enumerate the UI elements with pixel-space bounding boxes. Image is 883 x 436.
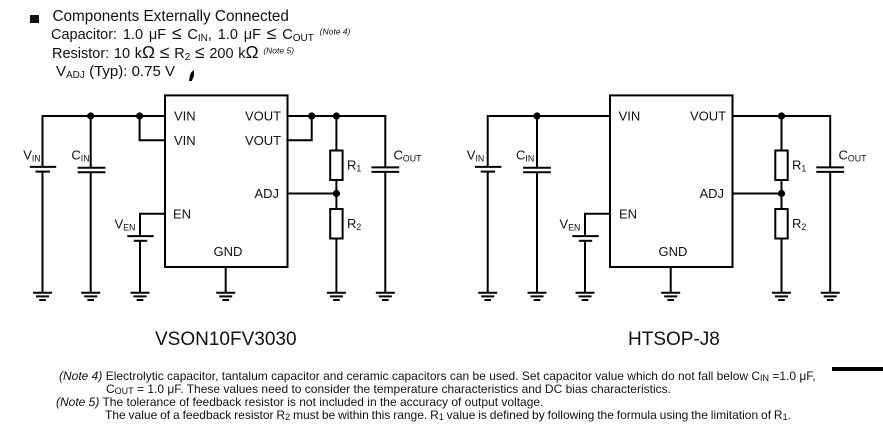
header line 2 xyxy=(51,28,350,43)
wire: CIN drop right xyxy=(536,116,538,167)
svg-text:VIN: VIN xyxy=(174,133,196,148)
node: CIN junction right xyxy=(533,112,540,119)
capacitor COUT xyxy=(371,167,399,172)
battery VEN right xyxy=(572,236,598,241)
note 4 line 1 xyxy=(59,370,816,382)
wire: COUT drop xyxy=(384,115,386,167)
ground: VIN source right xyxy=(478,293,497,300)
svg-text:R1: R1 xyxy=(347,157,361,173)
ground: VEN right xyxy=(576,293,595,300)
ground: COUT xyxy=(376,293,395,300)
wire: VIN source to ground right xyxy=(487,172,489,293)
resistor R1 xyxy=(330,151,342,181)
ground: GND pin right xyxy=(661,293,680,300)
capacitor COUT right xyxy=(816,167,844,172)
ground: CIN xyxy=(81,293,100,300)
node: VIN pin2 branch junction xyxy=(136,112,143,119)
svg-text:ADJ: ADJ xyxy=(255,186,280,201)
wire: GND pin to ground xyxy=(225,267,227,293)
svg-text:R2: R2 xyxy=(792,216,806,232)
svg-text:VOUT: VOUT xyxy=(245,109,281,124)
wire: R2 to ground xyxy=(335,239,337,293)
svg-text:EN: EN xyxy=(619,206,637,221)
wire: VEN to ground right xyxy=(584,241,586,292)
wire: EN pin to VEN xyxy=(140,214,165,236)
wire: input top rail right xyxy=(488,115,610,117)
wire: GND pin to ground right xyxy=(670,267,672,293)
wire: R2 to ground right xyxy=(781,239,783,293)
IC U1 VSON10FV3030 body xyxy=(165,95,288,267)
note 4 line 2 xyxy=(106,383,671,395)
svg-text:GND: GND xyxy=(659,244,688,259)
svg-text:VIN: VIN xyxy=(174,109,196,124)
node: ADJ junction xyxy=(333,190,340,197)
header line 4 xyxy=(56,64,175,79)
header bullet xyxy=(30,15,39,23)
svg-text:EN: EN xyxy=(173,206,191,221)
node: ADJ junction right xyxy=(778,190,785,197)
wire: COUT to ground right xyxy=(829,172,831,292)
wire: VIN source drop right xyxy=(487,115,489,166)
svg-text:VOUT: VOUT xyxy=(245,133,281,148)
wire: COUT to ground xyxy=(384,172,386,292)
svg-text:COUT: COUT xyxy=(394,147,423,163)
svg-text:ADJ: ADJ xyxy=(700,186,725,201)
header line 3 xyxy=(52,47,294,62)
resistor R2 xyxy=(330,209,342,239)
svg-text:VIN: VIN xyxy=(619,109,641,124)
node: R1 top junction right xyxy=(778,112,785,119)
svg-text:GND: GND xyxy=(214,244,243,259)
wire: CIN drop xyxy=(90,116,92,167)
wire: R1 top right xyxy=(781,116,783,151)
ground: CIN right xyxy=(528,293,547,300)
wire: VIN source drop xyxy=(42,115,44,166)
battery VIN xyxy=(30,167,56,172)
wire: R1 bottom to ADJ node right xyxy=(781,180,783,194)
node: CIN junction xyxy=(87,112,94,119)
svg-text:CIN: CIN xyxy=(516,147,534,163)
ground: VEN xyxy=(131,293,150,300)
note 5 line 1 xyxy=(56,396,543,408)
node: R1 top junction xyxy=(333,112,340,119)
wire: branch to VIN pin 2 xyxy=(140,116,165,140)
ground: COUT right xyxy=(821,293,840,300)
wire: VEN to ground xyxy=(139,241,141,292)
svg-text:VIN: VIN xyxy=(467,147,484,163)
IC U2 HTSOP-J8 body xyxy=(610,95,733,267)
wire: CIN to ground xyxy=(90,173,92,293)
black revision bar xyxy=(832,367,883,371)
battery VEN xyxy=(127,236,153,241)
battery VIN right xyxy=(475,167,501,172)
wire: R1 top xyxy=(335,116,337,151)
wire: VOUT output rail xyxy=(288,115,386,117)
svg-text:VEN: VEN xyxy=(115,217,136,233)
ground: VIN source xyxy=(33,293,52,300)
svg-text:R2: R2 xyxy=(347,216,361,232)
note 5 line 2 xyxy=(105,409,791,421)
svg-text:VIN: VIN xyxy=(23,147,40,163)
wire: ADJ node to R2 xyxy=(335,194,337,210)
wire: CIN to ground right xyxy=(536,173,538,293)
ground: R2 xyxy=(327,293,346,300)
wire: EN pin to VEN right xyxy=(585,214,610,236)
svg-text:VEN: VEN xyxy=(560,217,581,233)
wire: VIN source to ground xyxy=(42,172,44,293)
wire: branch to VOUT pin 2 xyxy=(288,116,312,140)
package name VSON10FV3030 xyxy=(155,330,297,349)
header line 1 xyxy=(53,9,289,24)
wire: VOUT output rail right xyxy=(733,115,831,117)
svg-text:VOUT: VOUT xyxy=(690,109,726,124)
wire: ADJ rail xyxy=(288,193,337,195)
artifact mark after 0.75 V xyxy=(189,70,194,81)
ground: R2 right xyxy=(772,293,791,300)
ground: GND pin xyxy=(216,293,235,300)
svg-text:COUT: COUT xyxy=(839,147,868,163)
wire: ADJ node to R2 right xyxy=(781,194,783,210)
capacitor CIN xyxy=(78,168,106,173)
svg-text:R1: R1 xyxy=(792,157,806,173)
wire: ADJ rail right xyxy=(733,193,782,195)
package name HTSOP-J8 xyxy=(628,330,720,349)
capacitor CIN right xyxy=(523,168,551,173)
svg-text:CIN: CIN xyxy=(71,147,89,163)
node: VOUT pin2 branch junction xyxy=(308,112,315,119)
resistor R2 right xyxy=(775,209,787,239)
wire: input top rail xyxy=(43,115,166,117)
wire: COUT drop right xyxy=(829,115,831,167)
wire: R1 bottom to ADJ node xyxy=(335,180,337,194)
resistor R1 right xyxy=(775,151,787,181)
